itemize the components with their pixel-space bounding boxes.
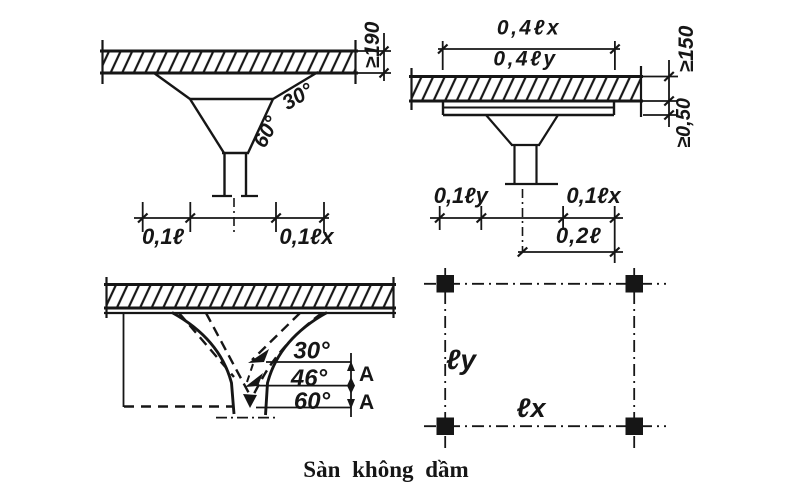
left reference vertical	[123, 313, 125, 407]
svg-text:0,4ℓy: 0,4ℓy	[493, 48, 557, 71]
leader line 60	[256, 407, 351, 409]
capital K1 right 30deg slant	[273, 72, 318, 99]
dim line 2 TR bottom 0,2l	[518, 251, 623, 253]
dim tick x324	[323, 202, 325, 232]
right dims TR ext lines	[643, 76, 678, 78]
plan grid line right	[633, 268, 635, 448]
capital K2 left slant	[486, 115, 512, 145]
svg-text:Sàn không dầm: Sàn không dầm	[303, 457, 468, 482]
svg-text:0,1ℓx: 0,1ℓx	[279, 224, 334, 249]
svg-text:30°: 30°	[293, 338, 330, 365]
column C2 right edge	[535, 145, 537, 184]
drop panel D1	[442, 101, 444, 115]
dashed 30deg cone right	[252, 313, 300, 360]
svg-text:0,2ℓ: 0,2ℓ	[556, 223, 602, 248]
dim right TL ext top	[356, 50, 391, 52]
slab S1 hatched band	[102, 51, 356, 73]
capital K2 right slant	[539, 115, 558, 145]
dashed 60deg cone left	[206, 313, 252, 399]
svg-text:0,4ℓx: 0,4ℓx	[497, 17, 561, 40]
A dimension vertical	[350, 353, 352, 417]
A arrow up	[347, 361, 355, 371]
svg-text:0,1ℓx: 0,1ℓx	[566, 183, 621, 208]
dashed center segment	[247, 364, 253, 382]
svg-text:0,1ℓ: 0,1ℓ	[142, 224, 185, 249]
right dims TR vertical	[668, 60, 670, 127]
dim right TL vertical	[383, 33, 385, 81]
arrow head 30	[248, 349, 269, 363]
svg-text:ℓy: ℓy	[446, 344, 477, 375]
svg-text:A: A	[359, 391, 374, 414]
svg-text:≥190: ≥190	[361, 21, 384, 68]
column C2 bottom break line	[505, 183, 558, 185]
slab S2 hatched band	[411, 77, 641, 102]
svg-text:≥150: ≥150	[675, 25, 698, 72]
column C2 center line	[522, 189, 524, 252]
dim tick x190	[189, 202, 191, 232]
plan grid line top	[424, 283, 666, 285]
dim line 1 TR bottom	[430, 217, 623, 219]
capital K1 right 60deg slant	[248, 99, 273, 153]
dashed 30deg cone left	[179, 313, 234, 377]
svg-text:ℓx: ℓx	[517, 393, 547, 423]
column square top-right	[626, 275, 644, 293]
slab S3 soffit line	[104, 312, 396, 314]
capital K1 top horizontal	[190, 98, 273, 100]
dim line 0,4lx	[438, 48, 620, 50]
dashed 46deg cone right	[249, 313, 322, 403]
dashed bottom reference line	[124, 405, 232, 407]
slab S1 right end tick	[354, 40, 356, 84]
slab S1 left end tick	[101, 40, 103, 84]
plan grid line left	[444, 268, 446, 448]
slab S3 right end tick	[392, 277, 394, 318]
A arrow down	[347, 399, 355, 409]
column C1 center line	[233, 198, 235, 235]
slab S3 left end tick	[105, 277, 107, 318]
column square bottom-right	[626, 418, 644, 436]
column C1 top line	[222, 152, 249, 154]
arrow head 46	[245, 373, 263, 387]
A arrow middle diamond	[347, 377, 355, 394]
svg-text:60°: 60°	[294, 388, 331, 415]
slab S3 hatched band	[106, 285, 394, 309]
dim tick x276	[275, 202, 277, 232]
leader line 46	[258, 385, 351, 387]
column C3 bottom center line	[216, 417, 278, 419]
column C1 right edge	[245, 153, 247, 195]
slab S2 left end tick	[410, 68, 412, 110]
plan grid line bottom	[424, 425, 666, 427]
column C3 left flare curve	[172, 313, 234, 415]
svg-text:≥0,50: ≥0,50	[673, 98, 695, 148]
column C2 top line	[511, 144, 540, 146]
column square top-left	[437, 275, 455, 293]
capital K1 left 30deg slant	[154, 73, 190, 99]
column C1 left edge	[223, 153, 225, 195]
column C1 bottom break line	[212, 195, 258, 197]
svg-text:0,1ℓy: 0,1ℓy	[434, 183, 490, 208]
capital K1 left 60deg slant	[190, 99, 224, 153]
column C2 left edge	[513, 145, 515, 184]
leader line 30	[266, 361, 351, 363]
dim right TL ext bottom	[356, 72, 391, 74]
column C3 right flare curve	[266, 313, 328, 416]
column square bottom-left	[437, 418, 455, 436]
dim line bottom TL	[134, 217, 329, 219]
dim tick x143	[142, 202, 144, 232]
svg-text:A: A	[359, 363, 374, 386]
slab S2 right end tick	[640, 66, 642, 117]
arrow head 60	[243, 394, 257, 408]
